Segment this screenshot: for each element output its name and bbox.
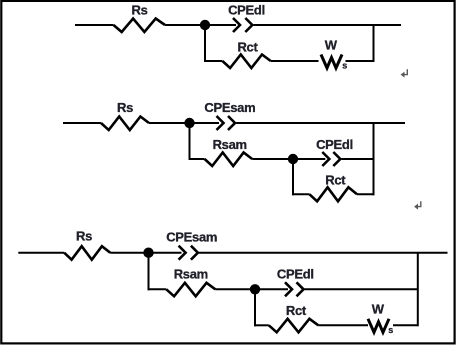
svg-text:W: W [325, 37, 338, 52]
node junction [184, 118, 194, 128]
svg-text:Rct: Rct [325, 173, 346, 188]
wire [110, 252, 181, 254]
svg-text:Rs: Rs [117, 100, 133, 115]
wire [215, 288, 288, 290]
Warburg Ws [321, 55, 342, 69]
resistor Rct [269, 319, 319, 333]
wire [204, 60, 222, 62]
svg-text:CPEdl: CPEdl [228, 3, 265, 18]
svg-text:CPEdl: CPEdl [316, 137, 353, 152]
node junction [288, 154, 298, 164]
resistor Rs [64, 246, 110, 260]
wire [148, 288, 167, 290]
wire [305, 288, 418, 290]
resistor Rct [222, 55, 270, 69]
wire [204, 25, 206, 62]
paragraph return mark [414, 201, 421, 209]
wire [292, 193, 310, 195]
wire [63, 122, 101, 124]
svg-text:Rs: Rs [76, 229, 92, 244]
node junction [143, 248, 153, 258]
wire [292, 159, 294, 195]
resistor Rct [310, 187, 358, 201]
CPE CPEdl [285, 282, 304, 296]
CPE CPEsam [217, 116, 236, 130]
wire [357, 193, 375, 195]
wire [18, 252, 64, 254]
CPE CPEsam [179, 246, 198, 260]
svg-text:Rsam: Rsam [174, 267, 208, 282]
resistor Rs [101, 117, 149, 131]
wire [149, 122, 219, 124]
resistor Rsam [166, 283, 215, 297]
wire [199, 252, 448, 254]
resistor Rs [114, 19, 166, 33]
paragraph return mark [401, 69, 408, 77]
resistor Rsam [205, 153, 253, 167]
wire [252, 158, 325, 160]
svg-text:CPEdl: CPEdl [277, 267, 314, 282]
wire [393, 324, 418, 326]
Warburg Ws [368, 319, 389, 333]
svg-text:Rsam: Rsam [213, 137, 247, 152]
svg-text:s: s [388, 325, 393, 335]
wire [417, 253, 419, 327]
wire [75, 24, 114, 26]
wire [318, 324, 368, 326]
wire [236, 122, 405, 124]
wire [189, 123, 191, 160]
wire [271, 60, 319, 62]
svg-text:CPEsam: CPEsam [204, 100, 255, 115]
svg-text:Rs: Rs [131, 3, 147, 18]
wire [254, 289, 256, 326]
node junction [250, 284, 260, 294]
wire [254, 24, 402, 26]
wire [148, 253, 150, 291]
wire [189, 158, 205, 160]
wire [165, 24, 236, 26]
svg-text:Rct: Rct [237, 39, 258, 54]
wire [346, 60, 375, 62]
wire [373, 123, 375, 195]
wire [373, 25, 375, 62]
svg-text:CPEsam: CPEsam [166, 230, 217, 245]
node junction [200, 20, 210, 30]
wire [254, 324, 269, 326]
svg-text:W: W [372, 301, 385, 316]
svg-text:Rct: Rct [286, 303, 307, 318]
wire [342, 158, 374, 160]
CPE CPEdl [233, 18, 252, 32]
CPE CPEdl [322, 152, 340, 166]
